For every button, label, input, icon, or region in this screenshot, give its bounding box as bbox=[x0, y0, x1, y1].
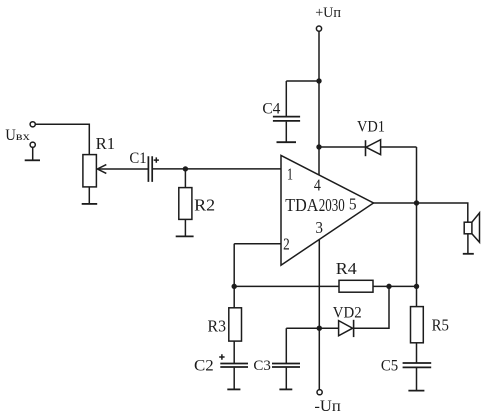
wire C2 bottom bbox=[233, 368, 235, 389]
svg-text:5: 5 bbox=[349, 194, 357, 213]
capacitor C5 bbox=[403, 363, 432, 367]
capacitor C1 bbox=[148, 156, 152, 182]
svg-text:C1: C1 bbox=[129, 150, 146, 167]
svg-text:U: U bbox=[5, 127, 16, 144]
diode VD2 bbox=[339, 321, 353, 336]
wire R2 top bbox=[184, 169, 186, 188]
svg-text:R3: R3 bbox=[208, 316, 227, 335]
svg-text:4: 4 bbox=[314, 176, 321, 195]
resistor R3 bbox=[229, 308, 242, 341]
ground R1 bbox=[82, 203, 98, 205]
svg-text:C2: C2 bbox=[194, 357, 214, 374]
wire speaker bottom bbox=[467, 234, 469, 254]
wire VD1 right bbox=[381, 146, 417, 148]
resistor R1 (potentiometer) bbox=[83, 155, 97, 187]
wire C3 bottom bbox=[285, 368, 287, 389]
node -Un terminal circle bbox=[317, 390, 322, 395]
svg-text:VD1: VD1 bbox=[357, 118, 385, 135]
resistor R4 bbox=[339, 280, 373, 292]
junction dot pin2 node bbox=[232, 284, 237, 289]
wire C4 top vertical bbox=[285, 81, 287, 116]
junction dot R2 tap bbox=[183, 166, 188, 171]
svg-text:-Uп: -Uп bbox=[314, 398, 341, 413]
junction dot right rail feedback bbox=[414, 284, 419, 289]
ground C4 bbox=[277, 141, 297, 143]
resistor R2 bbox=[179, 188, 192, 220]
svg-text:C5: C5 bbox=[381, 357, 398, 374]
node input ground terminal circle bbox=[30, 142, 35, 147]
wire output horizontal bbox=[374, 203, 468, 222]
svg-text:VD2: VD2 bbox=[333, 305, 362, 322]
wire C1 to pin1 bbox=[152, 168, 281, 170]
wire feedback horizontal bbox=[234, 285, 416, 287]
capacitor C4 bbox=[273, 117, 300, 121]
wire input ground stub bbox=[32, 147, 34, 160]
wire R2 bottom bbox=[184, 219, 186, 236]
plus sign C1 bbox=[154, 157, 159, 162]
svg-text:C3: C3 bbox=[253, 358, 271, 374]
wire VD2 right bbox=[354, 286, 389, 328]
svg-text:R5: R5 bbox=[432, 316, 449, 335]
ground R2 bbox=[176, 235, 194, 237]
svg-text:R1: R1 bbox=[96, 134, 116, 153]
wiper arrow R1 bbox=[97, 168, 148, 170]
capacitor C3 bbox=[272, 364, 300, 368]
wire VD1 left bbox=[319, 146, 366, 148]
wire R5 to C5 bbox=[416, 343, 418, 363]
wire C4 bottom bbox=[285, 122, 287, 142]
ground input bbox=[25, 159, 40, 161]
resistor R5 bbox=[411, 307, 424, 343]
wire pin2 down bbox=[233, 244, 235, 287]
ground speaker bbox=[463, 253, 474, 255]
svg-text:вх: вх bbox=[16, 129, 30, 143]
wire pin2 horizontal bbox=[234, 243, 281, 245]
ground C5 bbox=[408, 390, 424, 392]
svg-text:R4: R4 bbox=[336, 259, 357, 278]
wire R1 bottom bbox=[88, 187, 90, 204]
wire C4 top horizontal bbox=[286, 80, 319, 82]
svg-text:1: 1 bbox=[287, 165, 293, 184]
node +Un terminal circle bbox=[316, 26, 321, 31]
junction dot VD1 tap bbox=[316, 144, 321, 149]
svg-text:TDA: TDA bbox=[285, 195, 318, 215]
junction dot VD2 anode node bbox=[317, 326, 322, 331]
wire input top bbox=[35, 124, 89, 154]
ground C2 bbox=[227, 388, 240, 390]
svg-text:R2: R2 bbox=[194, 196, 215, 215]
wire VD2 left bbox=[286, 327, 338, 329]
svg-text:3: 3 bbox=[315, 218, 323, 237]
junction dot C4 tap bbox=[316, 78, 321, 83]
speaker BA1 bbox=[464, 222, 472, 234]
wire R3 top bbox=[233, 286, 235, 307]
junction dot VD2 tap bbox=[386, 284, 391, 289]
ground C3 bbox=[279, 388, 292, 390]
svg-text:C4: C4 bbox=[262, 101, 280, 118]
wire R3 to C2 bbox=[233, 341, 235, 363]
diode VD1 bbox=[365, 140, 367, 156]
svg-text:2030: 2030 bbox=[319, 195, 345, 215]
svg-text:2: 2 bbox=[283, 235, 290, 254]
plus sign C2 bbox=[219, 354, 224, 360]
wire right rail vertical bbox=[416, 147, 418, 307]
op-amp U1 TDA2030 bbox=[281, 155, 374, 265]
svg-text:+Uп: +Uп bbox=[315, 5, 341, 21]
capacitor C2 bbox=[220, 364, 248, 368]
junction dot output node bbox=[414, 200, 419, 205]
node input terminal circle bbox=[30, 122, 35, 127]
wire C3 top bbox=[285, 328, 287, 363]
wire C5 bottom bbox=[416, 368, 418, 390]
wire pin3 vertical bbox=[318, 240, 320, 390]
wire +Un vertical rail bbox=[318, 31, 320, 177]
